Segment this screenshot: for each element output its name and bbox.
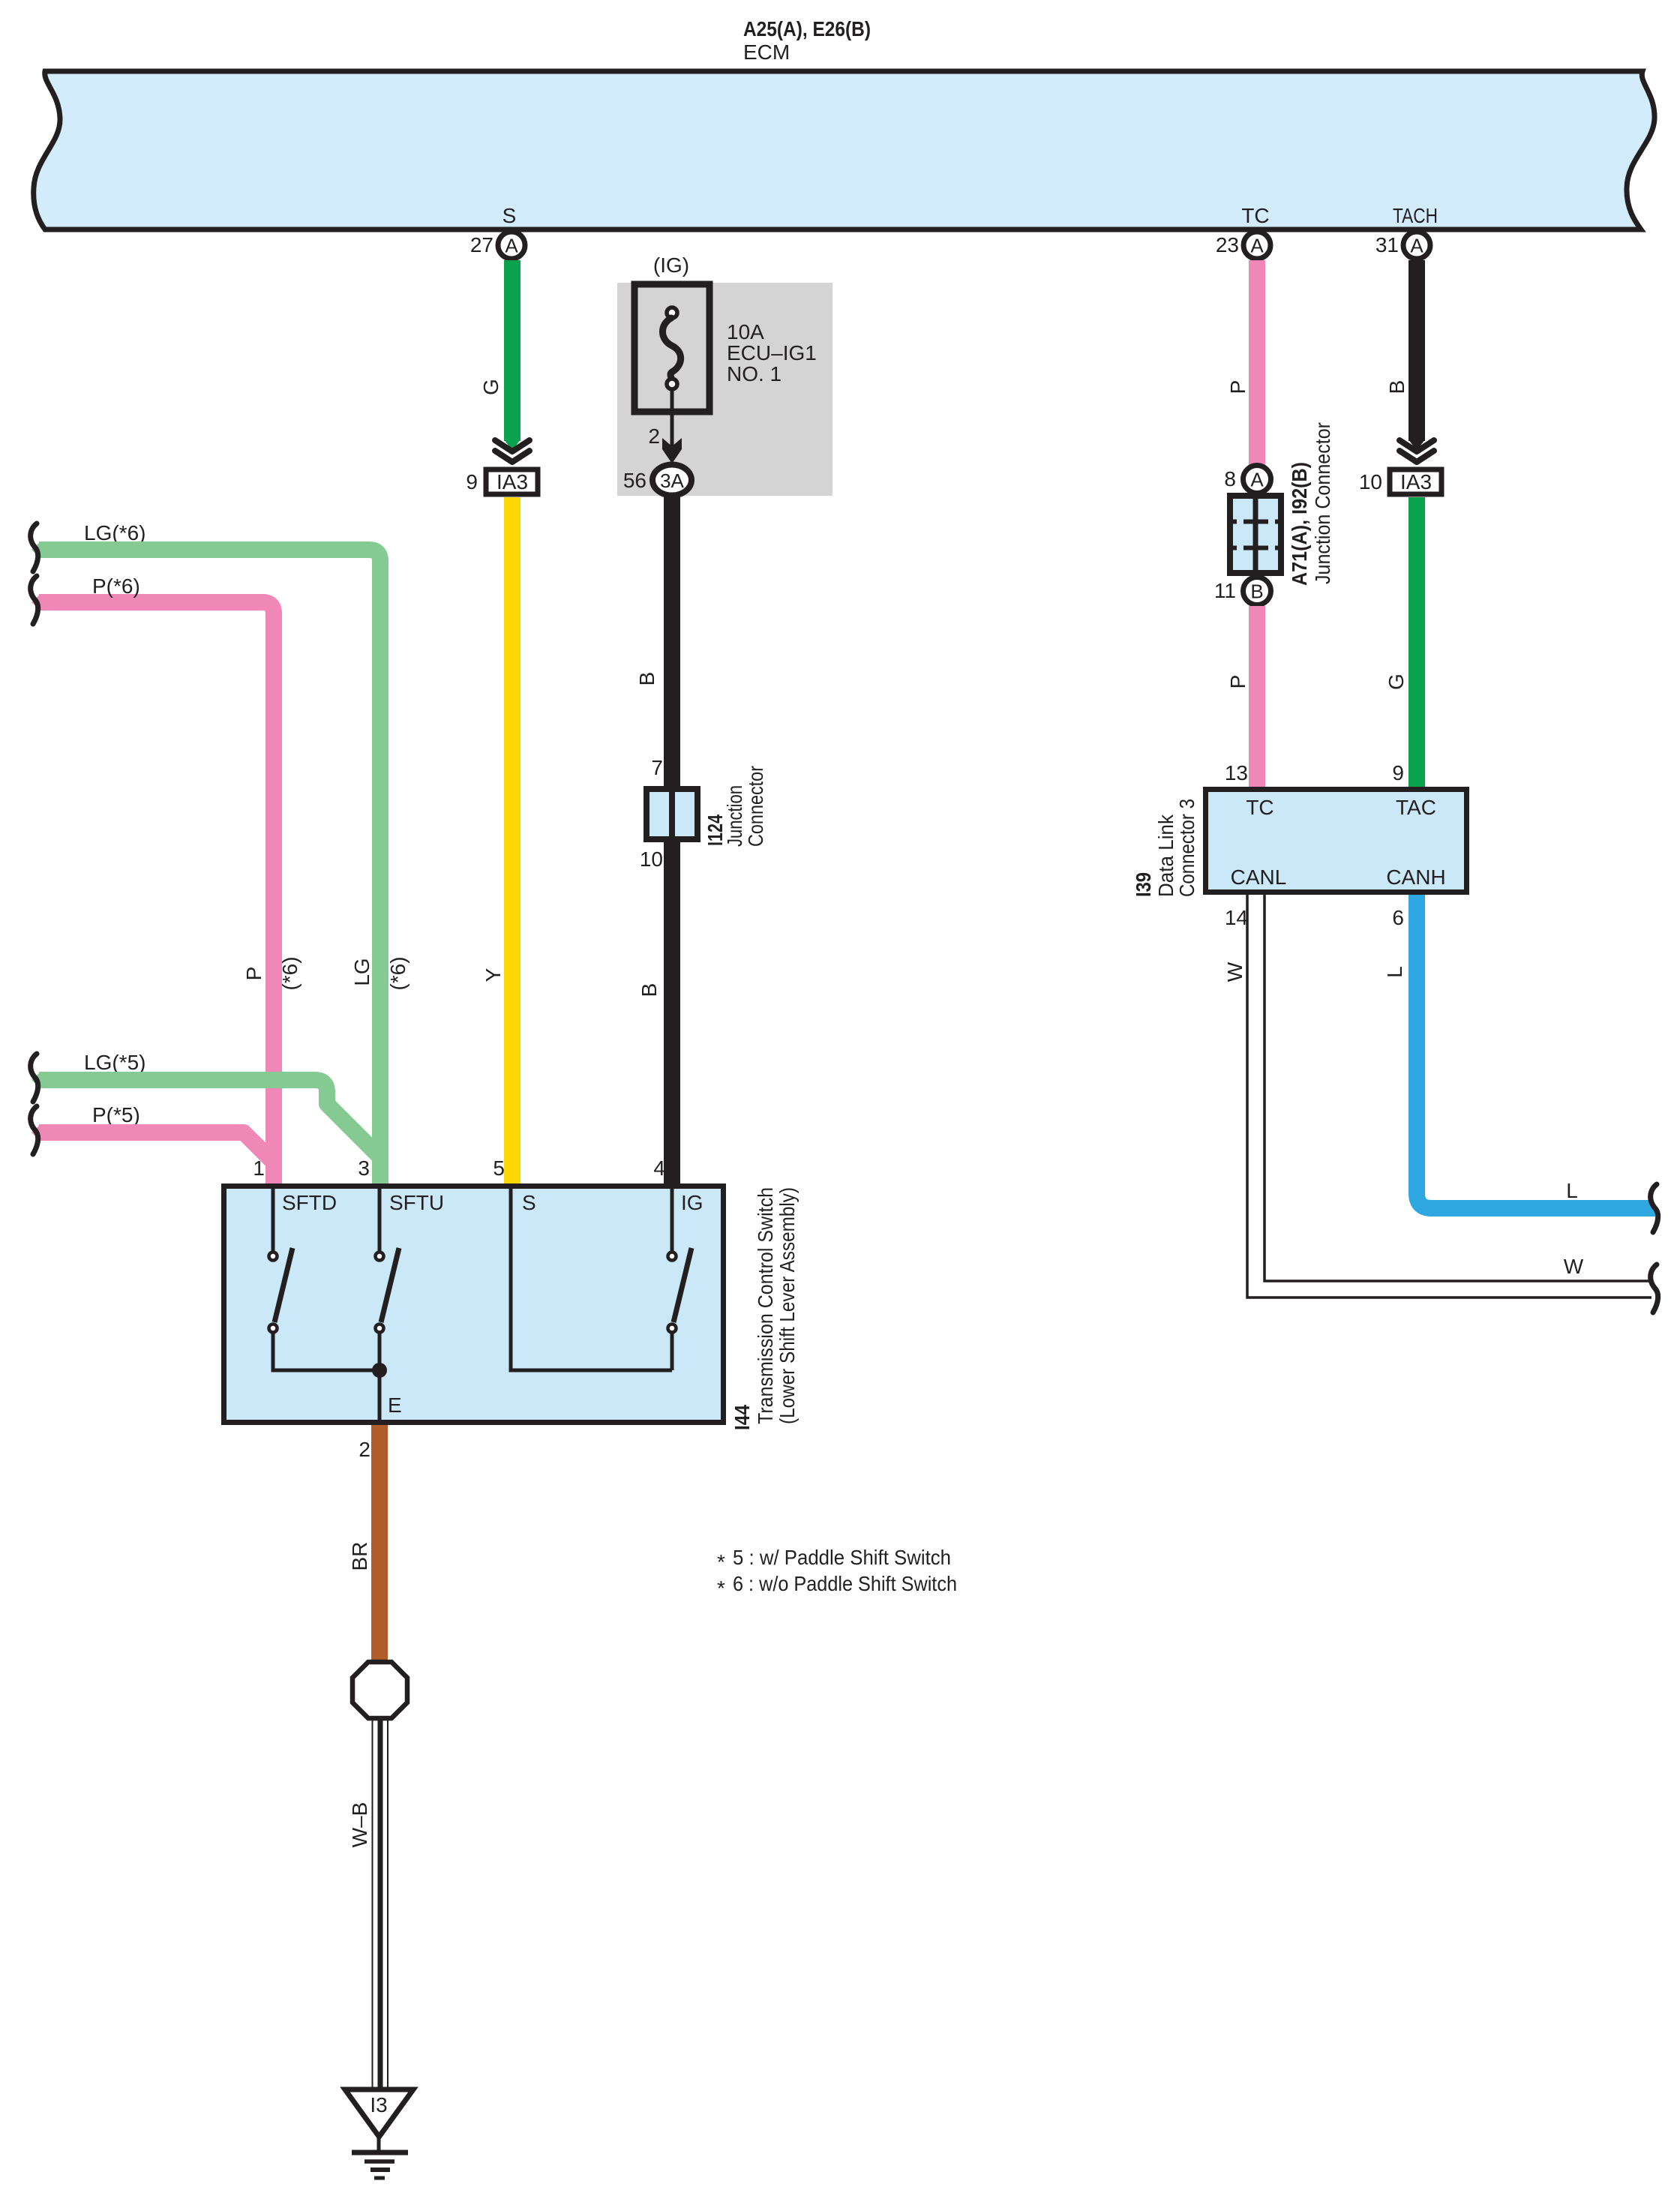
junction connector A71 pin 11 B xyxy=(1214,577,1271,605)
wire P(*5) pink merging into pin 1 wire xyxy=(31,1124,274,1163)
terminator curl LG(*5) xyxy=(31,1054,38,1102)
wire label P xyxy=(1226,675,1249,689)
svg-text:SFTD: SFTD xyxy=(282,1191,337,1214)
wire W-B white/black to ground xyxy=(373,1718,388,2088)
wire G green from pin 27 to IA3 xyxy=(495,260,529,462)
svg-text:4: 4 xyxy=(653,1156,665,1180)
svg-text:G: G xyxy=(1384,673,1408,690)
ground symbol xyxy=(352,2137,408,2178)
pin label 9 xyxy=(1392,761,1404,784)
svg-text:E: E xyxy=(388,1393,402,1417)
svg-text:8: 8 xyxy=(1224,467,1236,490)
svg-text:ECM: ECM xyxy=(743,40,790,64)
connector pin 23 A xyxy=(1216,232,1270,259)
pin label 6 xyxy=(1392,906,1404,929)
switch IG contact xyxy=(668,1186,692,1370)
svg-text:(Lower Shift Lever Assembly): (Lower Shift Lever Assembly) xyxy=(775,1187,799,1424)
wire from fuse pin 2 xyxy=(648,389,682,463)
label I44 Transmission Control Switch (Lower Shift Lever Assembly) xyxy=(730,1187,799,1430)
node TACH (ECM pin 31 label) xyxy=(1393,204,1438,227)
wire label W at edge xyxy=(1564,1255,1584,1278)
wire label B xyxy=(637,983,661,997)
svg-text:10: 10 xyxy=(1359,470,1382,493)
switch S internal wire xyxy=(511,1186,672,1370)
wire LG(*5) light green merging into pin 3 wire xyxy=(31,1072,381,1158)
wire B black from pin 31 to IA3 xyxy=(1399,260,1434,462)
svg-text:A: A xyxy=(1410,235,1423,257)
svg-text:A: A xyxy=(505,235,518,257)
transmission control switch I44 body xyxy=(224,1186,724,1423)
wire label G xyxy=(479,379,502,395)
svg-text:56: 56 xyxy=(623,469,646,492)
svg-text:P: P xyxy=(1226,380,1249,394)
switch SFTU contact xyxy=(376,1186,400,1423)
wire BR brown from switch pin 2 xyxy=(371,1425,388,1663)
svg-text:Junction Connector: Junction Connector xyxy=(1311,422,1334,584)
svg-text:10: 10 xyxy=(640,847,663,871)
svg-text:ECU–IG1: ECU–IG1 xyxy=(727,341,817,364)
data link connector 3 I39 xyxy=(1206,790,1467,892)
wire P pink from pin 23 to A71 xyxy=(1249,260,1265,466)
connector 3A pin 56 xyxy=(623,465,691,496)
svg-text:CANL: CANL xyxy=(1231,865,1287,889)
svg-text:IA3: IA3 xyxy=(496,470,528,493)
label LG(*6) xyxy=(84,521,145,544)
connector pin 31 A xyxy=(1375,232,1430,259)
svg-text:Junction: Junction xyxy=(723,785,746,847)
svg-text:10A: 10A xyxy=(727,320,764,343)
svg-text:(*6): (*6) xyxy=(278,956,301,990)
terminator curl P(*5) xyxy=(31,1106,38,1154)
wire Y yellow from IA3 to switch pin 5 xyxy=(504,497,520,1186)
svg-text:TAC: TAC xyxy=(1396,796,1436,819)
svg-text:2: 2 xyxy=(648,424,660,448)
svg-text:I3: I3 xyxy=(370,2093,387,2116)
svg-text:SFTU: SFTU xyxy=(389,1191,444,1214)
wire label W-B xyxy=(348,1802,371,1848)
wire W white from CANL pin 14 to right edge xyxy=(1247,895,1651,1297)
label A25(A), E26(B) xyxy=(743,17,871,40)
connector IA3 pin 9 xyxy=(466,469,538,494)
connector IA3 pin 10 xyxy=(1359,469,1441,494)
svg-text:NO. 1: NO. 1 xyxy=(727,362,781,385)
terminator curl W xyxy=(1651,1264,1658,1312)
splice octagon xyxy=(352,1662,407,1718)
svg-text:11: 11 xyxy=(1214,579,1236,602)
wire label G xyxy=(1384,673,1408,690)
svg-text:23: 23 xyxy=(1216,233,1239,256)
label A71(A), I92(B) Junction Connector xyxy=(1288,422,1334,586)
svg-text:6: 6 xyxy=(1392,906,1404,929)
svg-text:5 : w/ Paddle Shift Switch: 5 : w/ Paddle Shift Switch xyxy=(733,1546,951,1569)
terminator curl L xyxy=(1651,1184,1658,1232)
label I124 Junction Connector xyxy=(703,766,767,847)
note *6 w/o Paddle Shift Switch xyxy=(717,1572,957,1600)
svg-text:(*6): (*6) xyxy=(386,956,409,990)
svg-text:5: 5 xyxy=(493,1156,505,1180)
svg-text:Connector: Connector xyxy=(744,766,767,847)
svg-text:L: L xyxy=(1383,966,1406,978)
svg-text:TC: TC xyxy=(1241,204,1269,227)
node S (ECM pin 27 label) xyxy=(502,204,517,227)
svg-text:13: 13 xyxy=(1225,761,1248,784)
pin label 3 xyxy=(358,1156,370,1180)
svg-text:IG: IG xyxy=(681,1191,703,1214)
wire P pink from A71 to DLC3 pin 13 xyxy=(1249,606,1265,789)
svg-text:IA3: IA3 xyxy=(1400,470,1432,493)
junction connector I124 pins 7/10 xyxy=(640,756,697,871)
node TC (ECM pin 23 label) xyxy=(1241,204,1269,227)
wire label L xyxy=(1383,966,1406,978)
svg-text:G: G xyxy=(479,379,502,395)
wire label L at edge xyxy=(1566,1179,1578,1202)
pin label 4 xyxy=(653,1156,665,1180)
label P(*6) xyxy=(92,574,140,598)
wire L blue from CANH pin 6 to right edge xyxy=(1417,895,1659,1216)
svg-text:31: 31 xyxy=(1375,233,1399,256)
svg-text:9: 9 xyxy=(1392,761,1404,784)
ground I3 triangle xyxy=(345,2089,413,2137)
svg-text:27: 27 xyxy=(470,233,493,256)
label ECM xyxy=(743,40,790,64)
wire LG(*6) light green horizontal to switch pin 3 xyxy=(31,541,380,1186)
wire label P xyxy=(242,967,265,981)
svg-text:Connector 3: Connector 3 xyxy=(1175,799,1198,897)
wire label P xyxy=(1226,380,1249,394)
svg-text:*: * xyxy=(717,1550,725,1573)
svg-text:2: 2 xyxy=(358,1438,370,1461)
svg-text:W–B: W–B xyxy=(348,1802,371,1848)
svg-text:A: A xyxy=(1250,469,1264,491)
svg-text:B: B xyxy=(1385,380,1408,394)
wire label Y xyxy=(481,967,505,982)
svg-text:L: L xyxy=(1566,1179,1578,1202)
svg-text:9: 9 xyxy=(466,470,478,493)
svg-text:A25(A), E26(B): A25(A), E26(B) xyxy=(743,17,871,40)
wire P(*6) pink horizontal to switch pin 1 xyxy=(31,594,274,1186)
svg-text:BR: BR xyxy=(348,1542,371,1571)
svg-text:7: 7 xyxy=(651,756,663,779)
pin label 13 xyxy=(1225,761,1248,784)
junction dot E xyxy=(372,1363,402,1417)
svg-text:1: 1 xyxy=(253,1156,265,1180)
switch SFTD contact xyxy=(269,1186,380,1370)
svg-text:6 : w/o Paddle Shift Switch: 6 : w/o Paddle Shift Switch xyxy=(733,1572,957,1595)
svg-text:W: W xyxy=(1223,961,1246,982)
junction connector A71(A), I92(B) body xyxy=(1230,496,1281,573)
svg-text:3A: 3A xyxy=(660,469,684,492)
wire label B xyxy=(1385,380,1408,394)
ECM module band A25(A), E26(B) xyxy=(34,71,1654,229)
svg-text:P(*5): P(*5) xyxy=(92,1103,140,1126)
label P(*5) xyxy=(92,1103,140,1126)
note *5 w/ Paddle Shift Switch xyxy=(717,1546,951,1573)
wire B black from 3A to I124 xyxy=(664,496,680,788)
svg-text:A: A xyxy=(1250,235,1264,257)
svg-text:I44: I44 xyxy=(730,1405,754,1430)
wire label B xyxy=(635,672,658,686)
svg-text:LG: LG xyxy=(350,958,373,985)
svg-text:TC: TC xyxy=(1246,796,1273,819)
svg-text:B: B xyxy=(1250,580,1263,603)
terminator curl LG(*6) xyxy=(31,523,38,571)
pin label 1 xyxy=(253,1156,265,1180)
svg-text:I39: I39 xyxy=(1132,872,1155,897)
pin label 14 xyxy=(1225,906,1248,929)
junction connector A71 pin 8 A xyxy=(1224,466,1270,493)
fuse 10A ECU-IG1 NO. 1 xyxy=(634,284,709,412)
label (IG) xyxy=(653,253,689,277)
svg-text:S: S xyxy=(522,1191,536,1214)
svg-text:3: 3 xyxy=(358,1156,370,1180)
svg-text:(IG): (IG) xyxy=(653,253,689,277)
svg-text:P(*6): P(*6) xyxy=(92,574,140,598)
svg-text:Data Link: Data Link xyxy=(1154,814,1177,897)
svg-text:P: P xyxy=(242,967,265,981)
svg-text:B: B xyxy=(635,672,658,686)
label LG(*5) xyxy=(84,1051,145,1074)
svg-text:CANH: CANH xyxy=(1386,865,1445,889)
svg-text:B: B xyxy=(637,983,661,997)
svg-text:TACH: TACH xyxy=(1393,204,1438,227)
wire label BR xyxy=(348,1542,371,1571)
svg-text:LG(*5): LG(*5) xyxy=(84,1051,145,1074)
pin label 5 xyxy=(493,1156,505,1180)
wire label LG xyxy=(350,958,373,985)
wire label (*6) xyxy=(278,956,301,990)
svg-text:14: 14 xyxy=(1225,906,1248,929)
svg-text:W: W xyxy=(1564,1255,1584,1278)
terminator curl P(*6) xyxy=(31,576,38,624)
fuse block shading xyxy=(617,283,832,496)
wire B black from I124 to switch pin 4 xyxy=(664,842,680,1186)
svg-text:Transmission Control Switch: Transmission Control Switch xyxy=(754,1187,777,1424)
fuse value label 10A ECU-IG1 NO. 1 xyxy=(727,320,817,385)
svg-text:P: P xyxy=(1226,675,1249,689)
svg-text:A71(A), I92(B): A71(A), I92(B) xyxy=(1288,462,1311,586)
connector pin 27 A xyxy=(470,232,525,259)
wire G green from IA3 to DLC3 pin 9 xyxy=(1408,497,1425,789)
label I39 Data Link Connector 3 xyxy=(1132,799,1198,897)
wire label (*6) xyxy=(386,956,409,990)
svg-text:Y: Y xyxy=(481,967,505,982)
svg-text:S: S xyxy=(502,204,517,227)
wire label W xyxy=(1223,961,1246,982)
pin label 2 xyxy=(358,1438,370,1461)
svg-text:LG(*6): LG(*6) xyxy=(84,521,145,544)
svg-text:*: * xyxy=(717,1576,725,1600)
